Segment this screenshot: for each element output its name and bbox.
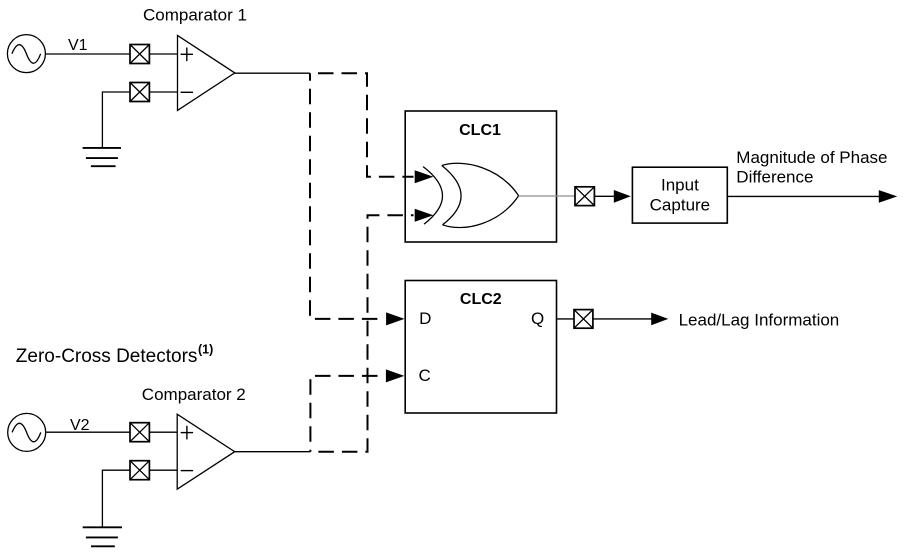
svg-text:Capture: Capture <box>650 195 710 214</box>
svg-text:V1: V1 <box>68 37 88 54</box>
svg-text:Zero-Cross Detectors: Zero-Cross Detectors <box>16 346 198 367</box>
svg-text:Q: Q <box>531 309 544 328</box>
svg-text:V2: V2 <box>70 417 90 434</box>
svg-text:Lead/Lag Information: Lead/Lag Information <box>679 311 840 330</box>
svg-text:Comparator 1: Comparator 1 <box>143 6 247 25</box>
svg-text:CLC2: CLC2 <box>460 291 502 308</box>
svg-text:Input: Input <box>661 175 699 194</box>
svg-text:Comparator 2: Comparator 2 <box>142 385 246 404</box>
svg-text:(1): (1) <box>198 342 213 356</box>
svg-text:C: C <box>419 366 431 385</box>
svg-text:D: D <box>419 309 431 328</box>
svg-text:Difference: Difference <box>736 167 813 186</box>
svg-text:CLC1: CLC1 <box>459 122 501 139</box>
svg-text:Magnitude of Phase: Magnitude of Phase <box>736 148 887 167</box>
